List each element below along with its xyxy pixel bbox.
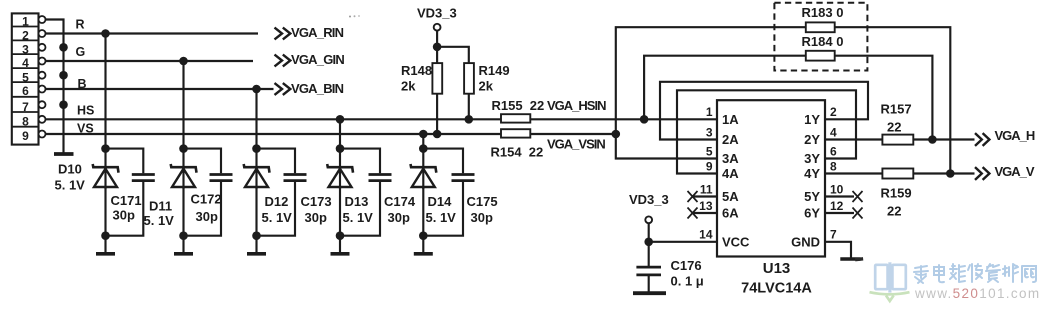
- watermark: book logo: [875, 262, 906, 292]
- resistor R184: [806, 51, 835, 61]
- wire G line (pin4 to VGA_GIN): [45, 60, 253, 62]
- svg-text:4: 4: [22, 56, 29, 70]
- no-connect X on pin 10: [853, 191, 863, 202]
- wire riser from signal line to D14: [422, 134, 424, 149]
- svg-text:2A: 2A: [722, 132, 739, 147]
- node junction on signal line at D10: [101, 29, 110, 38]
- no-connect X on pin 11: [688, 191, 698, 202]
- svg-text:7: 7: [22, 100, 29, 114]
- capacitor C173: [257, 149, 307, 236]
- wire VS line (pin9 to R154): [45, 133, 501, 135]
- node junction D14/C175 top: [419, 144, 428, 153]
- svg-text:5. 1V: 5. 1V: [55, 178, 86, 193]
- watermark: Chinese site name (approximated strokes): [914, 266, 928, 283]
- wire VD3_3 to R148: [436, 31, 438, 64]
- svg-text:6: 6: [830, 144, 837, 158]
- svg-text:VD3_3: VD3_3: [417, 5, 457, 20]
- wire D13 anode down to ground node: [339, 187, 341, 236]
- wire VD3_3 to C176: [648, 223, 650, 266]
- wire R148 to VS line: [436, 94, 438, 134]
- wire R149 to HS line: [468, 94, 470, 120]
- svg-text:2k: 2k: [401, 78, 416, 93]
- svg-text:3A: 3A: [722, 151, 739, 166]
- wire unused output pin 12 stub: [825, 212, 854, 214]
- svg-text:4: 4: [830, 125, 837, 139]
- svg-text:VCC: VCC: [722, 234, 750, 249]
- node junction D13/C174 top: [336, 144, 345, 153]
- svg-text:VGA_HSIN: VGA_HSIN: [547, 98, 606, 113]
- wire R159 to VGA_V arrow: [913, 172, 974, 174]
- wire R183 to VGA_V node: [835, 27, 951, 173]
- svg-text:R155 22: R155 22: [492, 98, 545, 113]
- wire D14 anode down to ground node: [422, 187, 424, 236]
- svg-text:C172: C172: [191, 192, 222, 207]
- node junction D10/C171 bottom: [101, 231, 110, 240]
- svg-text:VGA_BIN: VGA_BIN: [291, 81, 344, 96]
- svg-text:30p: 30p: [196, 209, 218, 224]
- svg-text:C171: C171: [111, 193, 142, 208]
- connector pin 6 circle: [39, 86, 46, 93]
- svg-text:D10: D10: [58, 162, 82, 177]
- svg-text:14: 14: [699, 228, 713, 242]
- svg-text:VGA_V: VGA_V: [995, 164, 1035, 179]
- wire VD3_3 branch to R149: [437, 47, 469, 63]
- node VGA_H arrow: [975, 133, 982, 146]
- artifact specks: [855, 257, 863, 261]
- node junction D14/C175 bottom: [419, 231, 428, 240]
- ground (connector shield): [54, 152, 74, 156]
- svg-text:22: 22: [887, 204, 901, 219]
- wire riser from signal line to D11: [182, 61, 184, 149]
- svg-text:5. 1V: 5. 1V: [144, 213, 175, 228]
- node junction VD3_3 branch: [433, 43, 442, 52]
- resistor R159: [882, 169, 913, 179]
- svg-text:6: 6: [22, 84, 29, 98]
- connector J1 (9-pin): [12, 13, 39, 144]
- wire VGA_HSIN line to U13 pin1: [530, 118, 717, 120]
- node junction pin7 on ground bus: [59, 100, 68, 109]
- capacitor C176: [636, 267, 661, 291]
- svg-text:5Y: 5Y: [804, 189, 820, 204]
- svg-text:R: R: [76, 18, 85, 32]
- wire unused output pin 10 stub: [825, 195, 854, 197]
- svg-text:22: 22: [887, 120, 901, 135]
- node junction D11/C172 bottom: [179, 231, 188, 240]
- connector pin 8 circle: [39, 116, 46, 123]
- ground under D10: [104, 236, 106, 254]
- resistor R157: [882, 135, 913, 145]
- wire riser from signal line to D10: [104, 34, 106, 149]
- connector pin 1 circle: [39, 16, 46, 23]
- svg-text:2: 2: [22, 29, 29, 43]
- svg-text:B: B: [78, 77, 87, 91]
- svg-text:3: 3: [706, 125, 713, 139]
- svg-text:3Y: 3Y: [804, 151, 820, 166]
- svg-text:9: 9: [22, 129, 29, 143]
- svg-text:VGA_GIN: VGA_GIN: [291, 52, 344, 67]
- svg-text:74LVC14A: 74LVC14A: [741, 281, 812, 297]
- svg-text:VGA_H: VGA_H: [995, 128, 1035, 143]
- node junction D12/C173 bottom: [252, 231, 261, 240]
- resistor R149: [464, 63, 474, 94]
- wire VCC to U13 pin14: [649, 241, 717, 243]
- wire unused input pin 13 stub: [692, 212, 717, 214]
- wire B line (pin6 to VGA_BIN): [45, 88, 273, 90]
- connector pin 4 circle: [39, 58, 46, 65]
- svg-text:6A: 6A: [722, 206, 739, 221]
- wire HS line (pin8 to R155): [45, 118, 501, 120]
- svg-text:VGA_RIN: VGA_RIN: [291, 25, 344, 40]
- svg-text:VS: VS: [77, 121, 94, 135]
- svg-text:G: G: [76, 45, 86, 59]
- svg-text:30p: 30p: [305, 210, 327, 225]
- wire VGA_VSIN line: [530, 133, 616, 135]
- wire R157 to VGA_H arrow: [913, 138, 974, 140]
- node junction on signal line at D13: [336, 115, 345, 124]
- svg-text:5: 5: [22, 70, 29, 84]
- resistor R155: [501, 114, 530, 122]
- svg-text:VD3_3: VD3_3: [629, 192, 669, 207]
- connector pin 9 circle: [39, 131, 46, 138]
- svg-text:5. 1V: 5. 1V: [262, 210, 293, 225]
- wire unused input pin 11 stub: [692, 195, 717, 197]
- zener diode D14: [411, 149, 437, 189]
- node junction R184-VGA_H: [928, 135, 937, 144]
- capacitor C172: [184, 149, 233, 236]
- node junction D10/C171 top: [101, 144, 110, 153]
- node VGA_V arrow: [975, 167, 982, 180]
- zener diode D12: [244, 149, 270, 189]
- node junction pin5 on ground bus: [59, 71, 68, 80]
- node VGA_RIN arrow: [275, 28, 283, 40]
- svg-text:0. 1 μ: 0. 1 μ: [671, 274, 704, 289]
- svg-text:U13: U13: [763, 260, 791, 277]
- svg-text:R183 0: R183 0: [802, 5, 844, 20]
- svg-text:9: 9: [706, 159, 713, 173]
- wire R184 to VGA_H node: [835, 56, 933, 140]
- svg-text:1A: 1A: [722, 112, 739, 127]
- svg-text:D11: D11: [149, 199, 172, 214]
- wire D12 anode down to ground node: [255, 187, 257, 236]
- wire 4Y to R159: [825, 172, 882, 174]
- wire VSIN up to R183: [616, 27, 806, 134]
- svg-text:R154 22: R154 22: [491, 145, 544, 160]
- ground under D13: [339, 236, 341, 254]
- svg-text:5A: 5A: [722, 189, 739, 204]
- ground under D12: [255, 236, 257, 254]
- capacitor C174: [340, 149, 392, 236]
- svg-text:C176: C176: [671, 258, 702, 273]
- no-connect X on pin 12: [853, 208, 863, 219]
- svg-text:7: 7: [830, 228, 837, 242]
- svg-text:13: 13: [699, 199, 713, 213]
- node junction D11/C172 top: [179, 144, 188, 153]
- svg-text:4Y: 4Y: [804, 166, 820, 181]
- resistor R183: [806, 22, 835, 32]
- svg-text:3: 3: [22, 42, 29, 56]
- svg-text:www.520101.com: www.520101.com: [914, 286, 1040, 301]
- svg-text:1Y: 1Y: [804, 112, 820, 127]
- power VD3_3 terminal (VCC): [645, 216, 652, 223]
- ground under C176: [633, 291, 666, 295]
- ground under D11: [182, 236, 184, 254]
- svg-text:HS: HS: [77, 103, 94, 117]
- node junction R148-VS: [433, 130, 442, 139]
- svg-text:5: 5: [706, 144, 713, 158]
- power VD3_3 terminal (top): [434, 24, 441, 31]
- node junction VSIN riser: [612, 130, 621, 139]
- ground at U13 pin7: [840, 257, 860, 261]
- node junction R149-HS: [465, 115, 474, 124]
- node junction on signal line at D12: [252, 85, 261, 94]
- svg-text:6Y: 6Y: [804, 206, 820, 221]
- wire 2Y to R157: [825, 138, 882, 140]
- capacitor C175: [423, 149, 474, 236]
- svg-text:1: 1: [22, 15, 29, 29]
- svg-text:R159: R159: [881, 185, 912, 200]
- node junction pin3 on ground bus: [59, 43, 68, 52]
- resistor R148: [432, 63, 442, 94]
- no-connect X on pin 13: [688, 208, 698, 219]
- svg-text:5. 1V: 5. 1V: [426, 210, 457, 225]
- ground under D14: [422, 236, 424, 254]
- wire R line (pin2 to VGA_RIN): [45, 32, 258, 34]
- svg-text:C175: C175: [467, 194, 498, 209]
- svg-text:8: 8: [830, 159, 837, 173]
- node junction R183-VGA_V: [946, 169, 955, 178]
- wire riser from signal line to D12: [255, 89, 257, 149]
- zener diode D13: [327, 149, 353, 189]
- node junction HSIN riser: [640, 115, 649, 124]
- svg-text:D14: D14: [428, 194, 453, 209]
- option outline (dashed box around R183/R184): [774, 3, 867, 71]
- wire D11 anode down to ground node: [182, 187, 184, 236]
- svg-text:2Y: 2Y: [804, 132, 820, 147]
- svg-text:10: 10: [830, 182, 844, 196]
- svg-text:D12: D12: [265, 194, 289, 209]
- svg-text:R149: R149: [479, 63, 510, 78]
- op-amp U13 body (74LVC14A hex inverter): [717, 100, 825, 256]
- capacitor C171: [106, 149, 155, 236]
- svg-text:C173: C173: [301, 194, 332, 209]
- connector pin 3 circle: [39, 44, 46, 51]
- svg-text:2k: 2k: [479, 78, 494, 93]
- node junction on signal line at D11: [179, 57, 188, 66]
- zener diode D11: [171, 149, 197, 189]
- svg-text:8: 8: [22, 114, 29, 128]
- wire riser from signal line to D13: [339, 119, 341, 148]
- svg-text:D13: D13: [345, 194, 369, 209]
- connector pin 5 circle: [39, 72, 46, 79]
- node VGA_BIN arrow: [275, 83, 283, 95]
- svg-text:GND: GND: [791, 234, 820, 249]
- wire HSIN up to R184: [644, 56, 806, 120]
- connector pin 7 circle: [39, 101, 46, 108]
- wire VSIN down to 3A: [616, 134, 717, 159]
- svg-text:R184 0: R184 0: [802, 34, 844, 49]
- node junction D13/C174 bottom: [336, 231, 345, 240]
- svg-text:VGA_VSIN: VGA_VSIN: [547, 136, 605, 151]
- svg-text:12: 12: [830, 199, 844, 213]
- resistor R154: [501, 129, 530, 137]
- svg-text:4A: 4A: [722, 166, 739, 181]
- node junction D12/C173 top: [252, 144, 261, 153]
- node junction VCC: [644, 238, 653, 247]
- svg-text:11: 11: [700, 182, 713, 196]
- svg-text:30p: 30p: [388, 210, 410, 225]
- wire U13 pin7 to ground: [825, 242, 851, 258]
- node junction on signal line at D14: [419, 130, 428, 139]
- svg-text:5. 1V: 5. 1V: [343, 210, 374, 225]
- svg-text:R148: R148: [401, 63, 432, 78]
- zener diode D10: [93, 149, 119, 189]
- svg-text:1: 1: [706, 105, 713, 119]
- connector pin 2 circle: [39, 30, 46, 37]
- svg-text:30p: 30p: [471, 210, 493, 225]
- svg-text:2: 2: [830, 105, 837, 119]
- wire 1Y to 2A loop: [660, 82, 868, 140]
- node VGA_GIN arrow: [275, 55, 283, 67]
- wire D10 anode down to ground node: [104, 187, 106, 236]
- svg-text:30p: 30p: [113, 208, 135, 223]
- svg-text:C174: C174: [384, 194, 416, 209]
- wire ground bus pins 1-3-5-7: [45, 20, 63, 153]
- wire 3Y to 4A loop: [677, 90, 856, 173]
- svg-text:R157: R157: [881, 102, 912, 117]
